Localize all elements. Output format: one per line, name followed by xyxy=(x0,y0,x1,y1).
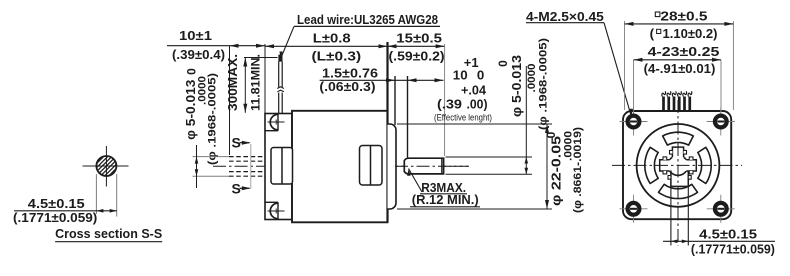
front view vertical centerline xyxy=(677,100,679,246)
motor can circle xyxy=(637,124,720,207)
svg-text:S: S xyxy=(232,135,241,151)
svg-text:(.06±0.3): (.06±0.3) xyxy=(319,79,375,94)
mounting flange square xyxy=(623,111,731,219)
svg-text:.0000: .0000 xyxy=(526,64,538,93)
extension front face xyxy=(264,44,266,114)
svg-text:(: ( xyxy=(650,26,655,41)
shaft circle front view xyxy=(668,155,688,175)
lead wire bundle front view xyxy=(662,97,665,112)
extension shaft tip xyxy=(444,44,446,156)
front view horizontal centerline xyxy=(612,164,742,166)
dimension 4.5±0.15 front view xyxy=(670,174,672,245)
phi5 dimension right xyxy=(446,156,533,158)
hub arm top xyxy=(670,147,687,158)
kidney slot bottom xyxy=(659,184,698,198)
svg-text:(R.12 MIN.): (R.12 MIN.) xyxy=(412,192,479,207)
hub arm bottom (wider, shaft flat) xyxy=(671,171,688,187)
motor front plate xyxy=(265,114,292,220)
svg-text:(.17771±0.059): (.17771±0.059) xyxy=(691,242,775,257)
svg-text:.00): .00) xyxy=(467,97,488,112)
dimension 10±1 xyxy=(167,45,265,47)
svg-text:φ 5-0.013: φ 5-0.013 xyxy=(509,55,524,117)
dimension 15±0.5 xyxy=(388,45,445,47)
svg-text:10±1: 10±1 xyxy=(179,28,212,43)
svg-text:4-M2.5×0.45: 4-M2.5×0.45 xyxy=(526,9,604,24)
mounting ear top-left xyxy=(277,114,279,131)
shaft chamfer line xyxy=(441,158,443,174)
phi5 dimension left xyxy=(193,156,230,158)
dimension 4-23±0.25 xyxy=(633,60,635,112)
section cut line xyxy=(250,144,252,189)
kidney slot top xyxy=(663,132,694,145)
svg-text:(Effective lenght): (Effective lenght) xyxy=(434,113,492,124)
bearing boss right xyxy=(360,146,383,186)
dimension 4.5±0.15 cross-section xyxy=(14,210,117,212)
output shaft xyxy=(404,158,443,174)
svg-text:(φ .1968-.0005): (φ .1968-.0005) xyxy=(537,38,549,130)
svg-text:0: 0 xyxy=(185,68,199,75)
svg-text:(.39: (.39 xyxy=(437,97,462,112)
cross-section extension lines xyxy=(95,174,97,214)
phi22 dimension xyxy=(397,123,552,125)
svg-text:(φ .8661-.0019): (φ .8661-.0019) xyxy=(572,127,584,213)
kidney slot left xyxy=(645,147,658,183)
svg-text:15±0.5: 15±0.5 xyxy=(396,30,442,45)
mounting ear bottom-left xyxy=(277,202,279,219)
svg-text:28±0.5: 28±0.5 xyxy=(660,9,707,24)
rear face bold line xyxy=(386,42,388,222)
motor main body xyxy=(292,111,388,223)
hub arm left xyxy=(660,157,671,174)
hub arm right xyxy=(685,157,696,174)
svg-text:Cross section S-S: Cross section S-S xyxy=(55,226,162,241)
centerline over shaft xyxy=(395,165,469,167)
dimension L±0.8 xyxy=(265,45,388,47)
screw hole crosshairs xyxy=(620,121,648,123)
svg-text:Lead wire:UL3265 AWG28: Lead wire:UL3265 AWG28 xyxy=(297,12,438,27)
svg-text:(.59±0.2): (.59±0.2) xyxy=(389,49,445,64)
svg-text:(φ .1968-.0005): (φ .1968-.0005) xyxy=(207,73,219,165)
screw holes M2.5 xyxy=(628,116,640,128)
svg-text:11.81MIN.: 11.81MIN. xyxy=(248,54,262,111)
centerline side view xyxy=(213,165,469,167)
svg-text:4-23±0.25: 4-23±0.25 xyxy=(648,44,720,59)
svg-text:φ 22-0.05: φ 22-0.05 xyxy=(549,136,564,206)
kidney slot right xyxy=(698,147,711,183)
dimension square 28±0.5 xyxy=(624,21,626,110)
svg-text:L±0.8: L±0.8 xyxy=(313,30,351,45)
lead wire side view xyxy=(278,55,282,62)
svg-text:(4-.91±0.01): (4-.91±0.01) xyxy=(644,61,716,76)
dimension 1.5±0.76 and 10 xyxy=(320,79,444,81)
label R3MAX with leader xyxy=(409,169,423,193)
svg-text:0: 0 xyxy=(477,68,484,83)
dimension 300MAX wire length xyxy=(244,57,278,59)
cross-section centerlines xyxy=(83,165,129,167)
hidden rear shaft dashed lines xyxy=(229,156,265,158)
svg-text:4.5±0.15: 4.5±0.15 xyxy=(699,226,757,241)
bearing boss left xyxy=(271,148,293,185)
rear end cap xyxy=(388,124,397,209)
svg-text:1.10±0.2): 1.10±0.2) xyxy=(663,26,718,41)
svg-text:300MAX.: 300MAX. xyxy=(225,54,240,111)
svg-text:(.1771±0.059): (.1771±0.059) xyxy=(13,210,97,225)
svg-text:(.39±0.4): (.39±0.4) xyxy=(172,47,225,62)
svg-text:+.04: +.04 xyxy=(461,83,487,98)
svg-text:S: S xyxy=(232,180,241,196)
svg-text:(L±0.3): (L±0.3) xyxy=(312,49,362,64)
